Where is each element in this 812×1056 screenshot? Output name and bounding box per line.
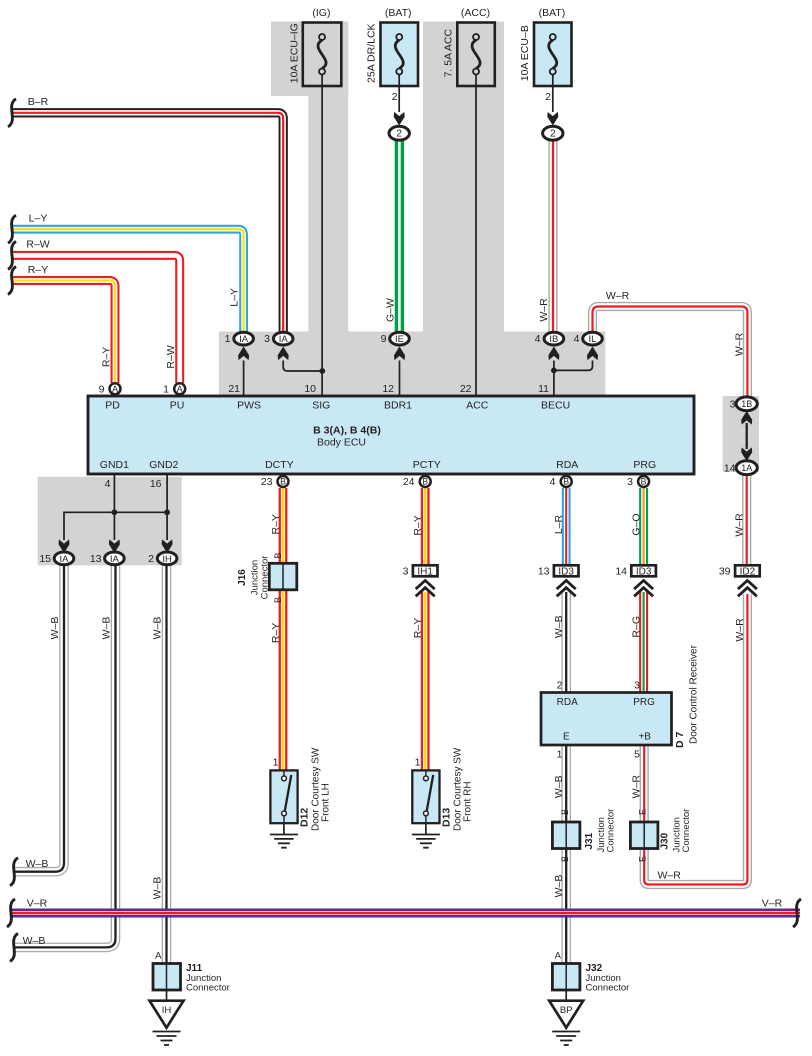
svg-text:B: B [280, 477, 286, 487]
connector 4 IL [583, 332, 603, 345]
svg-text:10: 10 [304, 383, 316, 395]
shade band behind connectors 1B/1A [723, 396, 759, 472]
ECU B 3(A) B 4(B) Body ECU [88, 396, 694, 474]
svg-text:B: B [273, 597, 283, 603]
svg-text:BP: BP [560, 1005, 573, 1016]
svg-text:BDR1: BDR1 [384, 400, 412, 412]
svg-text:R–Y: R–Y [28, 264, 48, 276]
svg-text:3: 3 [730, 398, 736, 410]
wire G-W fuse DR/LCK to 9 IE [395, 139, 404, 333]
wire branch from node to connector 3 IA [283, 361, 322, 372]
connector 23 B (DCTY) [278, 476, 289, 487]
svg-text:IA: IA [279, 334, 289, 345]
svg-text:SIG: SIG [312, 400, 330, 412]
connector 2 below ECU-B [543, 126, 563, 140]
triangle IH [150, 1001, 184, 1028]
wire fuse DR/LCK to connector 2 [398, 75, 400, 113]
svg-text:13: 13 [538, 566, 550, 578]
arrow into 1 IA [238, 347, 249, 361]
svg-text:E: E [563, 732, 570, 743]
svg-text:W–R: W–R [734, 332, 746, 356]
connector 3 1B [736, 397, 757, 411]
shade band behind IG fuse (vertical strip) [308, 22, 348, 333]
svg-text:25A DR/LCK: 25A DR/LCK [366, 23, 378, 83]
chevron below ID2 [738, 581, 757, 597]
svg-text:W–B: W–B [553, 875, 565, 898]
svg-text:16: 16 [150, 478, 162, 490]
svg-text:GND2: GND2 [149, 459, 178, 471]
fuse 25A DR/LCK [381, 23, 419, 87]
svg-text:ACC: ACC [466, 400, 489, 412]
svg-text:PWS: PWS [237, 400, 261, 412]
wire D13 switch to ground [425, 823, 427, 834]
svg-text:J16: J16 [237, 569, 248, 586]
svg-text:G–W: G–W [385, 298, 397, 322]
junction connector J30 [630, 822, 658, 849]
svg-text:IA: IA [110, 554, 120, 565]
svg-text:10A ECU–IG: 10A ECU–IG [289, 23, 301, 83]
door control receiver D7 box [541, 693, 672, 746]
ground below IH [153, 1032, 181, 1046]
wire GND1 tree [113, 474, 115, 540]
svg-text:3: 3 [634, 680, 640, 692]
svg-text:W–R: W–R [658, 870, 682, 882]
svg-text:1: 1 [415, 757, 421, 769]
svg-text:B: B [560, 809, 570, 815]
wire W-B from 13 IA down and left [14, 565, 116, 948]
svg-text:IB: IB [549, 334, 558, 345]
junction connector J32 [552, 964, 580, 991]
arrow into 4 IL [587, 347, 598, 361]
svg-text:IH1: IH1 [417, 566, 433, 577]
svg-text:V–R: V–R [27, 898, 48, 910]
svg-text:W–B: W–B [553, 615, 565, 638]
svg-text:A: A [112, 384, 118, 394]
svg-text:2: 2 [396, 129, 402, 140]
svg-text:IH: IH [162, 554, 172, 565]
wire G-O PRG from 3 B to 14 ID3 [639, 488, 648, 564]
svg-text:24: 24 [403, 476, 415, 488]
svg-text:PD: PD [105, 400, 120, 412]
svg-text:G–O: G–O [631, 513, 643, 535]
svg-text:1B: 1B [741, 399, 752, 409]
svg-text:W–B: W–B [23, 935, 46, 947]
svg-text:9: 9 [99, 383, 105, 395]
shade band behind ACC fuse [423, 22, 504, 333]
svg-text:R–G: R–G [631, 616, 643, 638]
svg-text:R–Y: R–Y [270, 623, 282, 643]
wire W-R 14 1A down to 39 ID2 [742, 474, 751, 564]
svg-text:A: A [155, 951, 162, 962]
svg-text:ID2: ID2 [740, 566, 756, 577]
svg-text:12: 12 [382, 383, 394, 395]
svg-text:D12: D12 [299, 808, 311, 827]
svg-text:IA: IA [60, 554, 70, 565]
svg-text:7. 5A ACC: 7. 5A ACC [443, 29, 455, 78]
svg-text:2: 2 [545, 91, 551, 103]
ground below BP [552, 1032, 580, 1046]
arrow into 14 1A [741, 447, 752, 461]
svg-text:1: 1 [273, 757, 279, 769]
svg-text:39: 39 [719, 566, 731, 578]
svg-text:J30: J30 [660, 832, 671, 849]
connector 3 B (PRG) [638, 476, 649, 487]
svg-text:14: 14 [724, 462, 736, 474]
svg-text:DCTY: DCTY [265, 459, 294, 471]
shade band behind GND connectors [38, 477, 182, 566]
wire R-G 14 ID3 to D7 PRG [639, 592, 648, 693]
svg-text:2: 2 [550, 129, 556, 140]
wire L-Y to 1 IA [12, 229, 244, 333]
svg-text:4: 4 [535, 333, 541, 345]
svg-text:D13: D13 [441, 808, 453, 827]
svg-text:9: 9 [381, 333, 387, 345]
svg-text:W–R: W–R [631, 775, 643, 799]
svg-text:W–R: W–R [734, 618, 746, 642]
svg-text:IH: IH [162, 1005, 172, 1016]
svg-text:RDA: RDA [556, 459, 578, 471]
svg-text:21: 21 [228, 383, 240, 395]
svg-text:RDA: RDA [557, 697, 578, 708]
connector 1 IA [234, 332, 254, 345]
wire W-R from 4 IL up and right to 3 1B [593, 307, 748, 398]
junction connector J16 [269, 563, 297, 590]
svg-text:PRG: PRG [633, 697, 655, 708]
svg-text:PRG: PRG [633, 459, 656, 471]
svg-text:2: 2 [557, 680, 563, 692]
svg-text:Connector: Connector [681, 809, 692, 853]
arrow into 3 IA [278, 347, 289, 361]
wire GND2 tree [166, 474, 168, 540]
wire W-B D7 E to J31 [561, 745, 571, 822]
svg-text:(BAT): (BAT) [385, 7, 412, 19]
svg-text:1: 1 [163, 383, 169, 395]
wire J32 to BP triangle [565, 988, 567, 1001]
svg-text:R–W: R–W [165, 345, 177, 368]
svg-text:E: E [638, 856, 648, 862]
svg-text:R–Y: R–Y [412, 515, 424, 535]
connector 14 ID3 [631, 565, 656, 577]
break symbol L-Y [8, 215, 16, 243]
fuse 10A ECU-IG [303, 23, 342, 87]
arrow into 4 IB [548, 347, 559, 361]
svg-text:4: 4 [574, 333, 580, 345]
svg-text:W–B: W–B [101, 617, 113, 640]
chevron below 14 ID3 [634, 581, 653, 597]
chevron below 13 ID3 [557, 581, 576, 597]
break symbol W-B lower [10, 933, 18, 961]
svg-text:W–R: W–R [538, 298, 550, 322]
double-arrow link 1B to 1A [746, 423, 748, 449]
wire W-B 13 ID3 to D7 RDA [561, 592, 571, 693]
svg-text:4: 4 [550, 476, 556, 488]
door courtesy switch D12 [270, 770, 297, 823]
svg-text:3: 3 [264, 333, 270, 345]
svg-text:PU: PU [170, 400, 185, 412]
ground below D13 [412, 835, 440, 848]
svg-text:IL: IL [589, 334, 597, 345]
svg-text:1: 1 [225, 333, 231, 345]
wire from ACC fuse to ACC pin 22 [475, 75, 477, 397]
svg-text:(ACC): (ACC) [461, 7, 490, 19]
arrow into 13 IA [109, 539, 120, 553]
wire R-Y IH1 chevron to D13 [421, 592, 430, 770]
connector 15 IA [54, 552, 74, 565]
connector 4 B (RDA) [561, 476, 572, 487]
wire GND horizontal link [64, 512, 167, 540]
svg-text:3: 3 [403, 566, 409, 578]
wire connector 9 IE to BDR1 pin 12 [399, 361, 401, 397]
arrow into 2 IH [162, 539, 173, 553]
break symbol B-R [8, 99, 16, 127]
junction node GND1 [112, 509, 118, 515]
svg-text:R–Y: R–Y [412, 618, 424, 638]
svg-text:(IG): (IG) [312, 7, 330, 19]
svg-text:3: 3 [627, 476, 633, 488]
connector 14 1A [736, 461, 757, 475]
wire connector 4 IB to BECU pin 11 [553, 361, 555, 397]
connector 1 A (PU) [174, 383, 185, 394]
fuse 7.5A ACC [457, 23, 495, 87]
svg-text:D 7: D 7 [674, 732, 686, 749]
svg-text:Connector: Connector [586, 983, 630, 994]
break symbol V-R left [7, 899, 15, 927]
svg-text:R–Y: R–Y [101, 347, 113, 367]
junction node IB/IL [551, 368, 557, 374]
connector 9 IE [390, 332, 410, 345]
arrow into 9 IE [394, 347, 405, 361]
junction node GND2 [164, 509, 170, 515]
svg-text:W–R: W–R [734, 513, 746, 537]
svg-text:W–B: W–B [49, 617, 61, 640]
junction node IG/SIG [319, 368, 325, 374]
svg-text:ID3: ID3 [558, 566, 574, 577]
junction connector J11 [153, 964, 181, 991]
svg-text:13: 13 [90, 553, 102, 565]
svg-text:+B: +B [638, 732, 651, 743]
svg-text:W–B: W–B [26, 858, 49, 870]
triangle BP [549, 1001, 583, 1028]
svg-text:V–R: V–R [762, 898, 783, 910]
wire W-R from ID2 down, left to J30 [644, 594, 747, 885]
svg-text:W–B: W–B [152, 617, 164, 640]
connector 2 IH [157, 552, 177, 565]
connector 3 IH1 [413, 565, 438, 577]
wire R-Y J16 to D12 [279, 591, 288, 771]
svg-text:IE: IE [395, 334, 404, 345]
wire J11 to IH triangle [166, 990, 168, 1001]
svg-text:L–R: L–R [553, 514, 565, 534]
arrow into connector 2 (ECU-B) [547, 112, 558, 126]
svg-text:B: B [560, 856, 570, 862]
wire V-R bus [12, 909, 800, 918]
svg-text:W–B: W–B [152, 877, 164, 900]
svg-text:(BAT): (BAT) [539, 7, 566, 19]
break symbol R-Y [8, 267, 16, 295]
connector 24 B (PCTY) [420, 476, 431, 487]
svg-text:15: 15 [39, 553, 51, 565]
svg-text:R–W: R–W [26, 239, 49, 251]
svg-text:R–Y: R–Y [270, 514, 282, 534]
svg-text:B: B [563, 477, 569, 487]
svg-text:L–Y: L–Y [229, 288, 241, 307]
wire W-B from 15 IA down and left [14, 565, 64, 872]
svg-text:W–B: W–B [553, 775, 565, 798]
svg-text:GND1: GND1 [100, 459, 129, 471]
svg-text:BECU: BECU [541, 400, 570, 412]
wire W-B from 2 IH down to J11 [162, 565, 172, 964]
svg-text:Front RH: Front RH [463, 781, 474, 822]
fuse 10A ECU-B [534, 23, 572, 87]
connector 2 below DR/LCK [389, 126, 409, 140]
svg-text:B–R: B–R [28, 96, 49, 108]
arrow into 3 1B [741, 411, 752, 425]
svg-text:Body ECU: Body ECU [317, 437, 366, 449]
svg-text:B: B [641, 477, 647, 487]
svg-text:10A ECU–B: 10A ECU–B [519, 25, 531, 81]
svg-text:Connector: Connector [186, 983, 230, 994]
svg-text:Connector: Connector [606, 809, 617, 853]
svg-text:IA: IA [239, 334, 249, 345]
ground below D12 [270, 835, 298, 848]
connector 4 IB [544, 332, 564, 345]
wire W-R fuse ECU-B to 4 IB [548, 139, 557, 333]
arrow into connector 2 (DR/LCK) [394, 112, 405, 126]
svg-text:J31: J31 [584, 832, 595, 849]
svg-text:B: B [273, 552, 283, 558]
wire W-B J31 to J32 [561, 849, 571, 964]
door courtesy switch D13 [412, 770, 439, 823]
wire R-Y PCTY from 24 B to IH1 [421, 488, 430, 564]
svg-text:B: B [422, 477, 428, 487]
svg-text:1A: 1A [741, 463, 752, 473]
svg-text:A: A [555, 951, 562, 962]
svg-text:PCTY: PCTY [413, 459, 441, 471]
chevron below IH1 [416, 581, 435, 597]
connector 3 IA [273, 332, 293, 345]
wire fuse ECU-B to connector 2 [552, 75, 554, 113]
svg-text:11: 11 [538, 383, 549, 395]
break symbol W-B upper [10, 858, 18, 886]
arrow into 15 IA [59, 539, 70, 553]
wire L-R RDA from 4 B to 13 ID3 [562, 488, 571, 564]
svg-text:ID3: ID3 [636, 566, 652, 577]
connector 13 IA [105, 552, 125, 565]
wire from IG fuse to SIG pin 10 [321, 75, 323, 397]
svg-text:22: 22 [460, 383, 472, 395]
svg-text:4: 4 [105, 478, 111, 490]
wire connector 4 IL branch to BECU node [554, 361, 593, 371]
svg-text:23: 23 [261, 476, 273, 488]
svg-text:W–R: W–R [606, 290, 630, 302]
svg-text:5: 5 [634, 749, 640, 761]
wire D12 switch to ground [283, 823, 285, 834]
wire W-R D7 +B to J30 [640, 745, 649, 822]
break symbol R-W [8, 241, 16, 269]
shade band behind IG fuse (top wide part) [271, 22, 348, 97]
svg-text:14: 14 [615, 566, 627, 578]
connector 13 ID3 [554, 565, 579, 577]
connector 9 A (PD) [110, 383, 121, 394]
svg-text:L–Y: L–Y [29, 213, 48, 225]
connector 39 ID2 [735, 565, 760, 577]
wire B-R horizontal+down to 3 IA [12, 113, 283, 333]
break symbol V-R right [793, 899, 801, 927]
wire connector 1 IA to PWS pin 21 [243, 361, 245, 397]
svg-text:Connector: Connector [259, 556, 270, 600]
svg-text:Front LH: Front LH [321, 783, 332, 822]
shade band behind connector row IA/IE/IB/IL [219, 332, 605, 397]
svg-text:1: 1 [557, 749, 563, 761]
wire R-Y to PD 9 A [12, 281, 115, 384]
wire R-W to PU 1 A [12, 255, 180, 383]
wire R-Y DCTY from 23 B to J16 [279, 488, 288, 564]
svg-text:2: 2 [148, 553, 154, 565]
svg-text:Door Control Receiver: Door Control Receiver [689, 644, 700, 744]
svg-text:B 3(A), B 4(B): B 3(A), B 4(B) [313, 425, 381, 437]
junction connector J31 [552, 822, 580, 849]
svg-text:E: E [638, 809, 648, 815]
svg-text:2: 2 [392, 91, 398, 103]
svg-text:A: A [177, 384, 183, 394]
